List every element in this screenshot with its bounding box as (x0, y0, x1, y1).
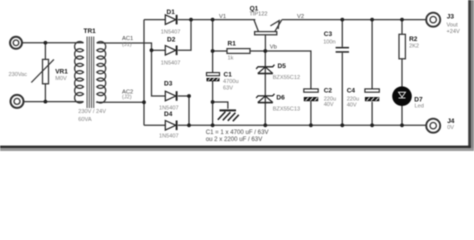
svg-text:C2: C2 (324, 88, 333, 95)
svg-text:ou 2 x 2200 uF / 63V: ou 2 x 2200 uF / 63V (206, 136, 264, 143)
svg-text:BZX55C13: BZX55C13 (273, 107, 300, 113)
svg-text:D2: D2 (167, 37, 176, 44)
svg-text:Led: Led (415, 104, 424, 110)
svg-text:D3: D3 (164, 81, 173, 88)
svg-text:D4: D4 (164, 111, 173, 118)
svg-text:(J1): (J1) (122, 42, 132, 48)
svg-text:R2: R2 (409, 36, 418, 43)
svg-text:VR1: VR1 (55, 68, 68, 75)
svg-text:63V: 63V (223, 85, 233, 91)
svg-text:D1: D1 (167, 9, 176, 16)
svg-text:+24V: +24V (447, 29, 460, 35)
svg-text:1N5407: 1N5407 (159, 106, 179, 112)
svg-text:Vb: Vb (270, 44, 277, 50)
svg-text:(J2): (J2) (122, 95, 132, 101)
svg-text:Vout: Vout (447, 22, 459, 28)
svg-text:D5: D5 (278, 63, 287, 70)
svg-text:1N5407: 1N5407 (161, 61, 181, 67)
svg-text:V2: V2 (297, 14, 304, 20)
svg-text:C4: C4 (347, 88, 356, 95)
svg-text:J3: J3 (447, 13, 455, 20)
svg-text:D7: D7 (414, 96, 423, 103)
svg-text:100n: 100n (323, 40, 335, 46)
svg-text:C1: C1 (224, 71, 233, 78)
svg-text:M0V: M0V (55, 76, 67, 82)
svg-text:40V: 40V (324, 102, 334, 108)
svg-text:40V: 40V (347, 103, 357, 109)
svg-text:1N5407: 1N5407 (159, 134, 179, 140)
svg-text:R1: R1 (228, 41, 237, 48)
svg-text:D6: D6 (276, 94, 285, 101)
svg-text:230V / 24V: 230V / 24V (78, 109, 106, 115)
svg-text:BZX55C12: BZX55C12 (273, 75, 300, 81)
svg-text:TIP122: TIP122 (249, 12, 267, 18)
svg-text:1N5407: 1N5407 (161, 30, 181, 36)
svg-text:V1: V1 (219, 14, 226, 20)
svg-text:4700u: 4700u (223, 79, 239, 85)
svg-text:0V: 0V (447, 125, 454, 131)
svg-text:220u: 220u (347, 96, 359, 102)
svg-text:1k: 1k (228, 56, 234, 62)
svg-text:60VA: 60VA (78, 117, 92, 123)
svg-text:C3: C3 (324, 31, 333, 38)
svg-text:2K2: 2K2 (409, 44, 419, 50)
svg-text:TR1: TR1 (84, 28, 97, 35)
svg-text:230Vac: 230Vac (9, 72, 28, 78)
